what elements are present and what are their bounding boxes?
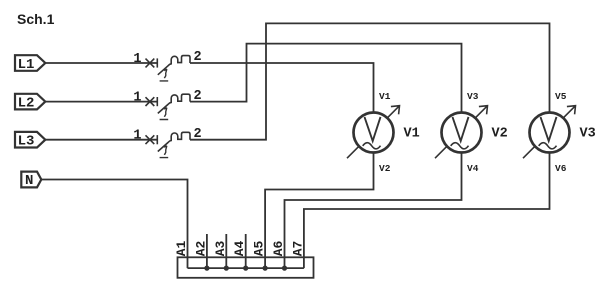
svg-text:A3: A3	[213, 240, 228, 256]
svg-text:A7: A7	[290, 241, 305, 257]
svg-text:V1: V1	[379, 91, 391, 102]
svg-text:V5: V5	[555, 91, 567, 102]
svg-text:L2: L2	[18, 96, 35, 112]
svg-text:A5: A5	[252, 240, 267, 256]
svg-text:V2: V2	[379, 163, 391, 174]
svg-text:A1: A1	[174, 240, 189, 256]
svg-text:A6: A6	[271, 240, 286, 256]
svg-text:V3: V3	[467, 91, 479, 102]
svg-text:A4: A4	[232, 240, 247, 256]
svg-text:V1: V1	[404, 127, 420, 142]
svg-text:A2: A2	[193, 240, 208, 256]
svg-text:V2: V2	[492, 127, 508, 142]
svg-text:L3: L3	[18, 134, 35, 150]
svg-text:V3: V3	[580, 127, 596, 142]
svg-text:N: N	[25, 173, 33, 189]
svg-text:L1: L1	[18, 57, 35, 73]
svg-text:Sch.1: Sch.1	[17, 11, 55, 27]
svg-text:V6: V6	[555, 163, 567, 174]
svg-text:V4: V4	[467, 163, 479, 174]
